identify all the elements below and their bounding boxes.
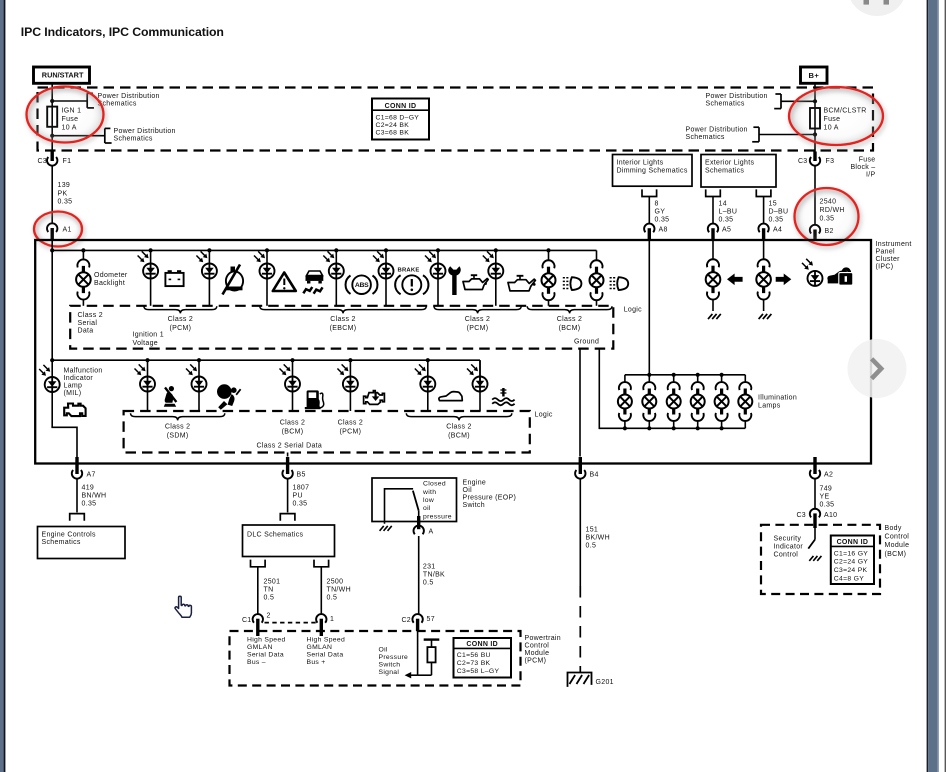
illumination lamp [673, 375, 675, 383]
car icon [439, 392, 462, 401]
svg-text:Odometer: Odometer [94, 272, 128, 279]
svg-text:0.35: 0.35 [655, 217, 670, 224]
red highlight ellipse A1 [34, 212, 82, 247]
svg-text:Class 2: Class 2 [557, 316, 582, 323]
svg-text:TN: TN [264, 586, 274, 593]
page side bar right [927, 0, 929, 772]
svg-text:0.35: 0.35 [58, 199, 73, 206]
connector A7 [72, 470, 82, 479]
svg-text:C2: C2 [401, 617, 411, 624]
svg-text:(PCM): (PCM) [170, 325, 192, 332]
svg-text:C1=56 BU: C1=56 BU [457, 652, 491, 659]
svg-text:CONN ID: CONN ID [385, 103, 417, 110]
security indicator LED [808, 271, 823, 286]
red highlight ellipse B2 [795, 188, 859, 245]
indicator LED lamp [334, 248, 338, 252]
svg-text:Class 2: Class 2 [338, 419, 363, 426]
svg-text:(MIL): (MIL) [64, 390, 82, 397]
svg-text:151: 151 [586, 527, 599, 534]
svg-text:IPC Indicators, IPC Communicat: IPC Indicators, IPC Communication [21, 25, 224, 39]
svg-text:low: low [423, 497, 434, 504]
ABS icon [346, 276, 351, 294]
airbag icon [217, 384, 232, 399]
wire 151 BK/WH [579, 479, 581, 586]
junction [50, 134, 54, 138]
illumination bottom bus [599, 427, 745, 429]
svg-text:C2=24 GY: C2=24 GY [834, 559, 868, 566]
class 2 logic dashed box row1 [70, 306, 613, 349]
svg-text:with: with [422, 489, 436, 496]
junction [50, 99, 54, 103]
svg-text:B+: B+ [809, 71, 820, 80]
indicator LED lamp [207, 248, 211, 252]
svg-text:0.5: 0.5 [586, 543, 597, 550]
svg-text:(PCM): (PCM) [467, 325, 489, 332]
svg-text:Pressure: Pressure [379, 654, 409, 661]
Interior Lights Dimming Schematics box [613, 155, 693, 187]
wire ignition feed vertical [51, 241, 53, 428]
svg-text:GMLAN: GMLAN [307, 644, 333, 651]
svg-text:2501: 2501 [264, 578, 281, 585]
svg-text:Module: Module [885, 542, 910, 549]
brace Class 2 PCM [144, 306, 217, 313]
connector A5 [708, 224, 718, 233]
Exterior Lights Schematics box [701, 155, 776, 188]
svg-text:Control: Control [774, 552, 799, 559]
svg-text:Module: Module [525, 650, 550, 657]
Engine Controls Schematics box [38, 527, 126, 559]
svg-text:Body: Body [885, 525, 902, 532]
connector C1 pin 2 [253, 614, 263, 623]
indicator LED lamp [290, 358, 294, 362]
svg-text:Lamp: Lamp [64, 383, 83, 390]
svg-text:C1: C1 [242, 617, 252, 624]
light beam icon [570, 277, 581, 290]
junction [813, 99, 817, 103]
svg-text:GMLAN: GMLAN [247, 644, 273, 651]
bus row 2 corner [479, 360, 481, 384]
svg-text:L–BU: L–BU [719, 209, 738, 216]
connector C3 F1 [47, 157, 57, 166]
svg-text:Dimming Schematics: Dimming Schematics [617, 168, 688, 175]
RUN/START feed box [34, 67, 90, 83]
malfunction indicator lamp MIL [45, 377, 60, 392]
wire to power distribution ref 4 [759, 134, 815, 136]
svg-text:Indicator: Indicator [64, 375, 94, 382]
wire 419 BN/WH [76, 479, 78, 513]
svg-text:0.35: 0.35 [293, 500, 308, 507]
CONN ID table PCM [454, 638, 512, 678]
svg-text:(BCM): (BCM) [559, 325, 581, 332]
box exit bracket [251, 561, 266, 567]
wire 749 YE [814, 479, 816, 509]
service wrench icon [448, 266, 461, 295]
svg-text:Backlight: Backlight [94, 280, 125, 287]
svg-text:15: 15 [769, 200, 777, 207]
svg-text:Data: Data [78, 328, 94, 335]
bus row 1 [52, 249, 596, 251]
svg-text:Switch: Switch [463, 502, 485, 509]
connector B2 [810, 225, 820, 234]
wire 2501 TN [257, 567, 259, 615]
svg-text:(BCM): (BCM) [282, 428, 304, 435]
svg-text:Serial Data: Serial Data [247, 652, 284, 659]
svg-text:Ignition 1: Ignition 1 [133, 332, 164, 339]
svg-text:Ground: Ground [574, 338, 599, 345]
svg-text:DLC Schematics: DLC Schematics [247, 532, 304, 539]
fuse block I/P dashed box [38, 88, 874, 151]
svg-text:0.35: 0.35 [719, 217, 734, 224]
wire 2500 TN/WH [320, 567, 322, 615]
connector B4 [575, 470, 585, 479]
svg-text:Power Distribution: Power Distribution [686, 127, 748, 134]
connector A [414, 526, 424, 535]
svg-text:A10: A10 [824, 512, 837, 519]
wire to power distribution ref 1 [52, 100, 87, 102]
indicator LED lamp [348, 358, 352, 362]
oil can icon 2 [508, 279, 535, 291]
svg-text:High Speed: High Speed [307, 637, 346, 644]
svg-text:C2=73 BK: C2=73 BK [457, 660, 491, 667]
svg-text:C3=58 L–GY: C3=58 L–GY [457, 668, 500, 675]
svg-text:(EBCM): (EBCM) [330, 325, 357, 332]
Instrument Panel Cluster box [35, 240, 871, 464]
svg-text:8: 8 [655, 200, 659, 207]
svg-text:oil: oil [423, 505, 431, 512]
svg-text:Class 2: Class 2 [78, 312, 103, 319]
svg-text:Class 2 Serial Data: Class 2 Serial Data [257, 443, 323, 450]
svg-text:Power Distribution: Power Distribution [706, 93, 768, 100]
box entry bracket [70, 514, 85, 520]
svg-text:D–BU: D–BU [769, 209, 789, 216]
svg-text:Lamps: Lamps [758, 403, 781, 410]
fuel pump icon [307, 390, 319, 407]
svg-text:High Speed: High Speed [247, 637, 286, 644]
light beam icon [617, 277, 628, 290]
svg-text:Voltage: Voltage [133, 340, 158, 347]
svg-text:419: 419 [82, 484, 95, 491]
wire ground drop to B4 [579, 349, 581, 457]
svg-text:BRAKE: BRAKE [398, 268, 420, 274]
page ref bracket [780, 94, 782, 109]
ground G201 [568, 673, 592, 687]
wire 231 TN/BK [418, 536, 420, 614]
top-right partial button [847, 0, 907, 16]
illumination lamp [697, 375, 699, 383]
svg-text:C4=8 GY: C4=8 GY [834, 575, 864, 582]
svg-text:pressure: pressure [423, 513, 452, 520]
wire 1807 PU [287, 479, 289, 513]
indicator LED lamp [479, 360, 481, 411]
svg-text:C3: C3 [798, 158, 808, 165]
svg-text:TN/WH: TN/WH [327, 586, 351, 593]
svg-text:Control: Control [885, 534, 910, 541]
svg-text:Engine Controls: Engine Controls [42, 531, 97, 538]
svg-text:749: 749 [820, 485, 833, 492]
svg-text:C3=68 BK: C3=68 BK [376, 130, 410, 137]
svg-text:Serial: Serial [78, 320, 98, 327]
svg-text:Fuse: Fuse [859, 157, 876, 164]
svg-text:Logic: Logic [624, 306, 642, 313]
turn signal lamp left [712, 241, 714, 260]
indicator LED lamp [265, 248, 269, 252]
svg-text:14: 14 [719, 200, 727, 207]
connector C3 A10 [810, 509, 820, 518]
svg-text:Bus +: Bus + [307, 659, 326, 666]
svg-text:A: A [429, 529, 434, 536]
svg-text:C1=16 GY: C1=16 GY [834, 550, 868, 557]
svg-text:A4: A4 [773, 227, 782, 234]
car with lock icon [827, 271, 851, 280]
wire 139 PK [51, 166, 53, 224]
svg-text:PU: PU [293, 492, 303, 499]
svg-text:0.5: 0.5 [327, 594, 338, 601]
svg-text:RUN/START: RUN/START [42, 71, 84, 80]
indicator LED lamp [149, 248, 153, 252]
box exit bracket [314, 561, 329, 567]
indicator LED lamp [494, 248, 498, 252]
svg-text:Class 2: Class 2 [165, 423, 190, 430]
connector A8 [644, 224, 654, 233]
svg-text:57: 57 [427, 616, 435, 623]
oil can icon [463, 279, 488, 290]
svg-text:C2=24 BK: C2=24 BK [376, 122, 410, 129]
svg-text:Power Distribution: Power Distribution [114, 128, 176, 135]
seat belt icon [169, 386, 174, 391]
wire ground drop to illumination bus [598, 349, 600, 429]
DLC Schematics box [243, 525, 335, 557]
fuse IGN 1 [47, 107, 57, 127]
svg-text:(SDM): (SDM) [167, 432, 189, 439]
odometer backlight bulb [81, 248, 85, 252]
wire 8 GY [648, 197, 650, 224]
B+ feed box [801, 67, 828, 83]
engine icon MIL [64, 404, 85, 417]
illumination lamp [744, 375, 746, 383]
left turn arrow [727, 274, 743, 286]
battery icon [165, 273, 183, 286]
box exit bracket [642, 190, 657, 196]
svg-text:(BCM): (BCM) [885, 551, 907, 558]
connector C2 pin 57 [412, 614, 422, 623]
svg-text:ABS: ABS [355, 282, 369, 289]
svg-text:Panel: Panel [876, 248, 896, 255]
svg-text:Oil: Oil [463, 487, 473, 494]
svg-text:Class 2: Class 2 [168, 316, 193, 323]
svg-text:1: 1 [330, 616, 334, 623]
svg-text:A5: A5 [722, 227, 731, 234]
svg-text:Closed: Closed [423, 481, 446, 488]
EOP switch box [372, 478, 457, 522]
next page button [848, 339, 907, 398]
svg-text:F1: F1 [63, 158, 72, 165]
washer fluid icon [226, 271, 243, 290]
wire 2540 RD/WH [814, 166, 816, 225]
wire B+ to fuse block [814, 83, 816, 152]
illumination lamp feed wire [648, 241, 650, 375]
wire RUN/START to fuse block [51, 83, 53, 152]
svg-text:G201: G201 [596, 679, 614, 686]
indicator LED lamp [197, 358, 201, 362]
svg-text:Exterior Lights: Exterior Lights [705, 160, 754, 167]
class 2 serial data dashed box row2 [124, 411, 530, 453]
wire to power distribution ref 3 [781, 100, 815, 102]
red highlight ellipse IGN1 fuse [27, 87, 104, 143]
svg-text:Security: Security [774, 536, 802, 543]
check engine icon [364, 391, 385, 405]
svg-text:Oil: Oil [379, 647, 388, 654]
svg-text:Class 2: Class 2 [465, 316, 490, 323]
svg-text:0.35: 0.35 [820, 501, 835, 508]
svg-text:B4: B4 [590, 472, 599, 479]
signal wire and arrow [417, 631, 419, 675]
wire B5 from serial data box [287, 453, 289, 457]
svg-text:B5: B5 [297, 472, 306, 479]
box entry bracket [280, 514, 295, 520]
indicator LED lamp [436, 248, 440, 252]
svg-text:C1=68 D–GY: C1=68 D–GY [376, 114, 420, 121]
wire to power distribution ref 2 [52, 135, 105, 137]
svg-text:(IPC): (IPC) [876, 264, 894, 271]
svg-text:2: 2 [267, 613, 271, 620]
page ref bracket [86, 93, 88, 108]
brace Class 2 SDM [131, 413, 225, 420]
red highlight ellipse BCM/CLSTR fuse [789, 87, 883, 145]
Body Control Module dashed box [761, 525, 880, 594]
svg-text:Logic: Logic [535, 411, 553, 418]
svg-text:Serial Data: Serial Data [307, 652, 344, 659]
svg-text:TN/BK: TN/BK [423, 572, 445, 579]
svg-text:0.5: 0.5 [264, 594, 275, 601]
svg-text:0.35: 0.35 [769, 217, 784, 224]
Powertrain Control Module dashed box [230, 631, 521, 686]
svg-text:0.5: 0.5 [423, 580, 434, 587]
beam indicator bulb [596, 250, 598, 260]
svg-text:(PCM): (PCM) [340, 428, 362, 435]
svg-text:A8: A8 [659, 227, 668, 234]
svg-text:Switch: Switch [379, 662, 401, 669]
svg-text:A2: A2 [824, 472, 833, 479]
traction control icon [307, 271, 323, 276]
svg-text:Interior Lights: Interior Lights [617, 160, 664, 167]
connector B5 [282, 470, 292, 479]
svg-text:Schematics: Schematics [42, 539, 81, 546]
svg-text:A7: A7 [87, 472, 96, 479]
connector pin 1 [316, 614, 326, 623]
svg-text:Engine: Engine [463, 479, 487, 486]
svg-text:Schematics: Schematics [114, 135, 153, 142]
turn signal lamp right [763, 241, 765, 260]
page ref bracket [758, 127, 760, 142]
svg-text:BN/WH: BN/WH [82, 492, 107, 499]
svg-text:C3: C3 [37, 158, 47, 165]
page side bar left [0, 0, 4, 772]
svg-text:F3: F3 [826, 158, 835, 165]
brace Class 2 PCM 2 [434, 306, 521, 313]
svg-text:BK/WH: BK/WH [586, 535, 610, 542]
svg-text:Instrument: Instrument [876, 241, 912, 248]
svg-text:Class 2: Class 2 [280, 419, 305, 426]
svg-text:GY: GY [655, 209, 666, 216]
svg-text:0.35: 0.35 [82, 500, 97, 507]
svg-text:YE: YE [820, 493, 830, 500]
svg-text:Signal: Signal [379, 669, 400, 676]
svg-text:(PCM): (PCM) [525, 658, 547, 665]
junction [813, 132, 817, 136]
svg-text:Malfunction: Malfunction [64, 368, 103, 375]
brace Class 2 BCM [527, 306, 612, 313]
svg-text:Illumination: Illumination [758, 395, 797, 402]
svg-text:CONN ID: CONN ID [837, 539, 869, 546]
fuse BCM/CLSTR [810, 108, 820, 129]
svg-text:2500: 2500 [327, 578, 344, 585]
svg-text:Schematics: Schematics [686, 134, 725, 141]
illumination lamp [648, 375, 650, 383]
svg-text:C3=24 PK: C3=24 PK [834, 567, 868, 574]
svg-text:139: 139 [58, 182, 71, 189]
beam indicator bulb [546, 248, 550, 252]
page ref bracket [104, 128, 106, 143]
indicator LED lamp [384, 248, 388, 252]
wire 15 D-BU [763, 197, 765, 224]
svg-text:Control: Control [525, 643, 550, 650]
right turn arrow [776, 274, 792, 286]
twisted pair dashes [265, 622, 317, 624]
warning triangle icon [273, 273, 296, 292]
svg-text:Bus –: Bus – [247, 659, 266, 666]
brake warning icon [395, 275, 400, 294]
CONN ID table fuse block [372, 99, 429, 140]
box exit bracket [706, 190, 721, 196]
svg-text:Schematics: Schematics [705, 168, 744, 175]
indicator LED lamp [145, 358, 149, 362]
MIL wire jog to A7 [52, 427, 77, 456]
svg-text:Schematics: Schematics [706, 101, 745, 108]
svg-text:Cluster: Cluster [876, 256, 901, 263]
connector A2 [810, 470, 820, 479]
brace Class 2 BCM 2 [406, 413, 512, 420]
pull-up resistor [431, 640, 433, 647]
EOP switch contacts [385, 489, 413, 523]
svg-text:Class 2: Class 2 [330, 316, 355, 323]
connector C3 F3 [810, 157, 820, 166]
svg-text:Pressure (EOP): Pressure (EOP) [463, 495, 517, 502]
illumination lamp [624, 375, 626, 383]
illumination top bus [625, 374, 745, 376]
wire 14 L-BU [712, 197, 714, 224]
connector A4 [758, 224, 768, 233]
svg-text:Class 2: Class 2 [446, 423, 471, 430]
svg-text:Powertrain: Powertrain [525, 635, 561, 642]
svg-text:231: 231 [423, 564, 436, 571]
CONN ID table BCM [831, 536, 874, 585]
illumination lamp [721, 375, 723, 383]
brace Class 2 EBCM [260, 306, 427, 313]
box exit bracket [756, 190, 771, 196]
coolant icon [502, 388, 504, 397]
svg-text:CONN ID: CONN ID [466, 641, 498, 648]
svg-text:1807: 1807 [293, 484, 310, 491]
svg-text:PK: PK [58, 190, 68, 197]
indicator LED lamp [426, 358, 430, 362]
connector A1 [47, 223, 57, 232]
svg-text:Indicator: Indicator [774, 544, 804, 551]
bus row 2 [52, 359, 480, 361]
svg-text:I/P: I/P [866, 172, 875, 179]
svg-text:C3: C3 [796, 512, 806, 519]
security indicator control switch [814, 528, 816, 540]
svg-text:Power Distribution: Power Distribution [98, 93, 160, 100]
